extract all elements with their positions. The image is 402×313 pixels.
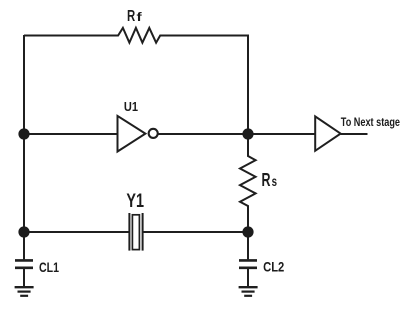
svg-text:CL2: CL2 <box>263 260 284 275</box>
svg-text:To Next stage: To Next stage <box>341 117 400 129</box>
svg-text:R: R <box>127 8 136 25</box>
svg-text:Y1: Y1 <box>126 190 144 212</box>
svg-text:U1: U1 <box>124 99 138 114</box>
svg-text:CL1: CL1 <box>39 260 59 275</box>
svg-text:f: f <box>137 12 142 24</box>
svg-text:R: R <box>262 170 271 190</box>
svg-text:s: s <box>272 174 277 189</box>
